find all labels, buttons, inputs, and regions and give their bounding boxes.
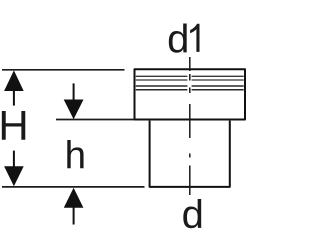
H dimension lower arrowhead bbox=[4, 166, 24, 186]
h dimension lower shaft bbox=[73, 207, 75, 225]
rib line 4 bbox=[136, 89, 244, 91]
H dimension upper shaft bbox=[13, 90, 15, 106]
h dimension upper shaft bbox=[73, 83, 75, 100]
extension line bottom bbox=[2, 186, 145, 188]
extension line top (H upper) bbox=[2, 69, 125, 71]
socket body outline (upper wide cylinder) bbox=[135, 69, 246, 119]
centerline (dash-dot) bbox=[189, 57, 191, 195]
H dimension lower shaft bbox=[13, 151, 15, 167]
svg-text:d: d bbox=[182, 193, 204, 237]
rib line 3 bbox=[136, 85, 244, 87]
rib line 1 bbox=[136, 75, 244, 77]
svg-text:H: H bbox=[0, 102, 29, 149]
h dimension upper arrowhead bbox=[64, 100, 84, 120]
H dimension upper arrowhead bbox=[4, 70, 24, 91]
extension line middle (h upper) bbox=[56, 119, 134, 121]
spigot outline (lower narrow cylinder) bbox=[150, 121, 230, 187]
h dimension lower arrowhead bbox=[64, 188, 84, 208]
rib line 2 bbox=[136, 79, 244, 81]
svg-text:h: h bbox=[65, 135, 86, 178]
svg-text:d: d bbox=[167, 18, 189, 62]
